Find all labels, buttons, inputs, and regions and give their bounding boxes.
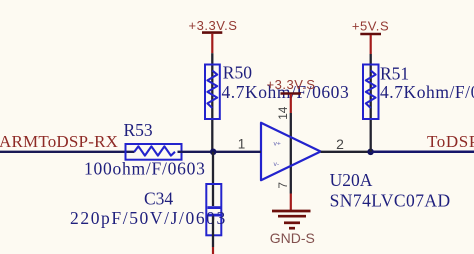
svg-text:v+: v+ bbox=[274, 141, 281, 148]
svg-text:2: 2 bbox=[336, 136, 344, 152]
power port +5V.S bbox=[352, 19, 389, 54]
svg-text:v-: v- bbox=[274, 161, 280, 168]
wire from junction down to C34 bbox=[212, 152, 214, 206]
pin 14 wire through buffer to pin 7 bbox=[290, 113, 292, 194]
svg-text:100ohm/F/0603: 100ohm/F/0603 bbox=[84, 159, 206, 179]
power port +3.3V.S (middle, pin 14) bbox=[267, 77, 316, 113]
resistor R50 bbox=[205, 62, 349, 119]
svg-text:U20A: U20A bbox=[330, 170, 373, 190]
svg-text:+3.3V.S: +3.3V.S bbox=[267, 77, 316, 92]
svg-text:ARMToDSP-RX: ARMToDSP-RX bbox=[0, 132, 118, 151]
svg-text:14: 14 bbox=[276, 106, 290, 120]
ground GND-S bbox=[270, 194, 315, 246]
resistor R53 bbox=[84, 120, 206, 178]
svg-text:ToDSP-RX: ToDSP-RX bbox=[427, 132, 474, 151]
wire from C34 down (to cut-off ground) bbox=[212, 216, 214, 247]
svg-text:1: 1 bbox=[238, 137, 246, 152]
wire from left edge to R53 bbox=[0, 151, 135, 153]
wire through R50 body down to junction A bbox=[211, 65, 213, 152]
op-amp buffer U20A triangle bbox=[261, 123, 321, 180]
power port +3.3V.S (left, above R50) bbox=[189, 18, 238, 53]
resistor R51 bbox=[363, 64, 474, 120]
svg-text:SN74LVC07AD: SN74LVC07AD bbox=[330, 190, 451, 210]
svg-text:220pF/50V/J/0603: 220pF/50V/J/0603 bbox=[70, 208, 227, 228]
wire from +5V.S to R51 bbox=[370, 54, 372, 65]
svg-text:7: 7 bbox=[276, 182, 290, 189]
svg-text:+3.3V.S: +3.3V.S bbox=[189, 18, 238, 33]
wire from junction B to right edge bbox=[371, 151, 474, 154]
pin 2 wire from U20A apex to junction B bbox=[321, 151, 371, 153]
node B junction dot bbox=[367, 149, 374, 156]
wire through R51 down to junction B bbox=[370, 65, 372, 152]
svg-text:C34: C34 bbox=[144, 189, 173, 209]
svg-text:4.7Kohm/F/0603: 4.7Kohm/F/0603 bbox=[380, 82, 474, 102]
wire from R53 to pin 1 of U20A bbox=[178, 151, 262, 153]
svg-text:R50: R50 bbox=[223, 62, 252, 82]
capacitor C34 bbox=[70, 184, 227, 235]
svg-text:GND-S: GND-S bbox=[270, 230, 315, 246]
svg-text:R51: R51 bbox=[380, 64, 409, 84]
svg-text:R53: R53 bbox=[124, 120, 153, 140]
node A junction dot bbox=[210, 149, 217, 156]
wire from +3.3V.S to R50 bbox=[211, 53, 213, 64]
svg-text:+5V.S: +5V.S bbox=[352, 19, 389, 34]
